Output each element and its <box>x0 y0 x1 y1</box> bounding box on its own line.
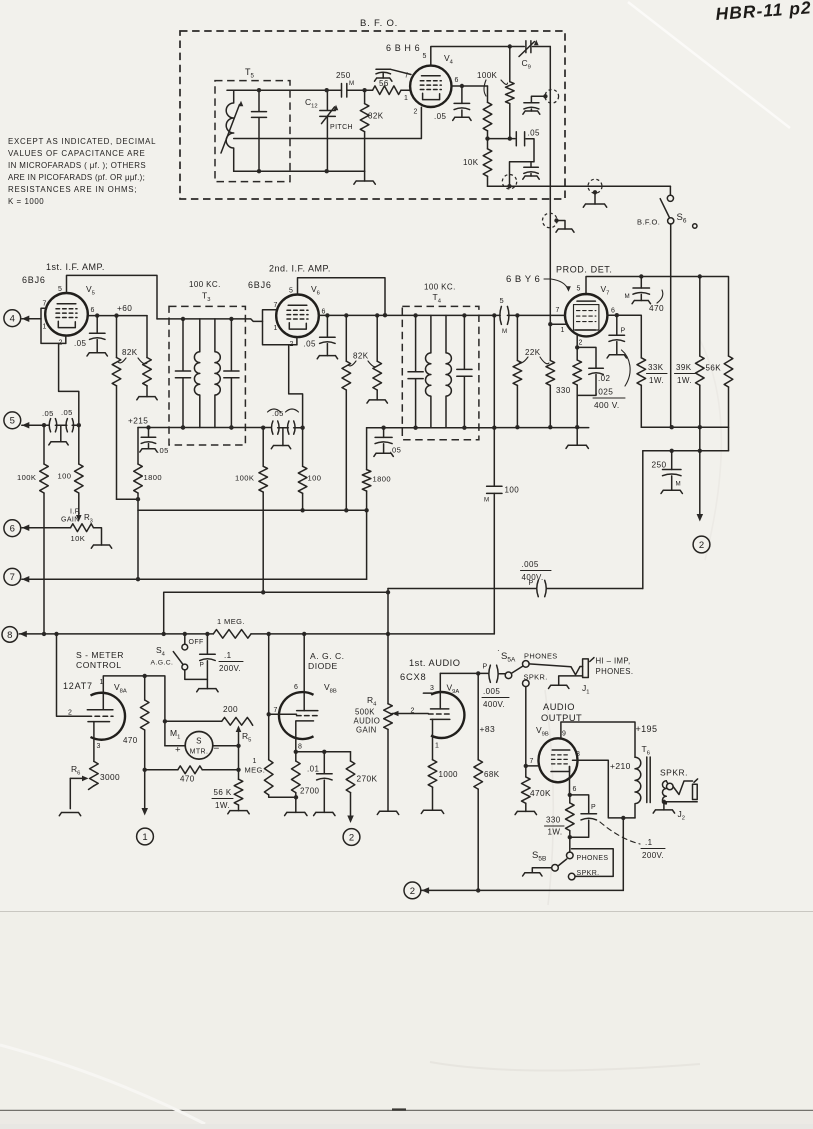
svg-text:HI – IMP,: HI – IMP, <box>596 657 631 666</box>
svg-text:MEG.: MEG. <box>245 766 266 775</box>
svg-text:SPKR.: SPKR. <box>577 870 600 877</box>
svg-text:10K: 10K <box>71 534 86 543</box>
svg-text:6: 6 <box>573 786 577 793</box>
svg-text:100 KC.: 100 KC. <box>189 280 221 289</box>
wire V7 pin 6 <box>607 315 641 358</box>
svg-text:1: 1 <box>561 327 565 334</box>
svg-text:.05: .05 <box>61 408 73 417</box>
svg-text:6CX8: 6CX8 <box>400 672 426 682</box>
svg-text:12AT7: 12AT7 <box>63 681 93 691</box>
svg-text:5: 5 <box>289 288 293 295</box>
resistor 330 (V7 cathode) <box>576 347 578 360</box>
wire R5 wiper down <box>238 746 240 779</box>
wire 82K-left to 1800 column <box>117 498 139 500</box>
ground at T5 bottom <box>364 171 366 181</box>
svg-text:2: 2 <box>411 708 415 715</box>
resistor 1800 (V6 cathode) <box>366 428 368 470</box>
capacitor .05 (at +215) <box>146 425 150 429</box>
svg-text:100: 100 <box>308 474 322 483</box>
svg-text:P: P <box>591 804 596 811</box>
svg-text:S: S <box>196 737 202 746</box>
terminal 8 <box>2 627 18 643</box>
resistor 22K (left) <box>516 315 518 360</box>
svg-text:.05: .05 <box>390 446 402 455</box>
T6 secondary <box>662 781 666 804</box>
svg-text:1800: 1800 <box>373 475 392 484</box>
svg-text:1000: 1000 <box>439 770 459 779</box>
svg-text:PHONES.: PHONES. <box>596 667 634 676</box>
svg-text:2: 2 <box>699 540 704 551</box>
svg-text:82K: 82K <box>353 352 369 361</box>
wire S5A spkr contact down to V9B grid <box>525 687 527 777</box>
svg-text:8: 8 <box>576 751 580 758</box>
rheostat R6 3000 <box>93 722 95 762</box>
potentiometer R4 500K AUDIO GAIN <box>384 704 393 730</box>
wire V8B pin 7 <box>269 713 297 715</box>
svg-text:7: 7 <box>43 301 47 308</box>
wire terminal 4 to V5 grid <box>22 318 41 320</box>
svg-text:.05: .05 <box>74 339 86 348</box>
grounded cap at shield <box>531 96 545 102</box>
wire terminal 6 to R3 <box>22 527 71 529</box>
wire AGC from 100K-V6 <box>164 592 388 634</box>
shield feedthrough (dashed circle) on C9 line upper <box>545 90 559 104</box>
resistor 82K (right, V5) <box>146 316 148 358</box>
wire V6 grid loop <box>263 310 297 345</box>
svg-text:6: 6 <box>10 524 15 535</box>
capacitor .01 <box>323 752 325 774</box>
resistor 470K <box>522 777 531 803</box>
capacitor .1 200V <box>206 634 208 654</box>
wire detector lower bus (left of gap) <box>494 427 588 429</box>
svg-text:68K: 68K <box>484 770 500 779</box>
resistor 1 MEG (vertical) <box>268 634 270 760</box>
S5B selection box wire <box>572 849 614 877</box>
terminal 2 (audio) <box>404 882 421 899</box>
svg-text:4: 4 <box>10 314 15 325</box>
svg-text:.025: .025 <box>596 387 614 397</box>
wire V9A plate to .005 cap <box>440 672 478 674</box>
svg-text:6: 6 <box>322 309 326 316</box>
wire V5 cathode down <box>59 343 79 425</box>
svg-text:MTR.: MTR. <box>190 749 209 756</box>
svg-text:6: 6 <box>455 77 459 84</box>
svg-text:5: 5 <box>10 416 15 427</box>
switch S4 A.G.C./OFF <box>184 634 186 644</box>
svg-text:330: 330 <box>546 816 561 825</box>
wire audio output feed down <box>642 451 644 589</box>
terminal 6 <box>4 520 21 537</box>
svg-text:M: M <box>349 80 355 87</box>
svg-text:7: 7 <box>274 707 278 714</box>
wire V9B pin 7 <box>526 765 540 767</box>
wire terminal 2 bus (audio B+) <box>422 889 624 891</box>
svg-text:.05: .05 <box>528 129 540 138</box>
svg-text:AUDIO: AUDIO <box>543 702 575 712</box>
svg-text:+215: +215 <box>128 416 148 426</box>
svg-text:1: 1 <box>142 832 147 843</box>
svg-text:A. G. C.: A. G. C. <box>310 651 345 661</box>
resistor 82K (left, V6) <box>345 315 347 361</box>
resistor 22K (right) <box>549 324 551 360</box>
svg-text:6BJ6: 6BJ6 <box>22 275 46 285</box>
svg-text:P: P <box>621 328 626 335</box>
resistor 82K (left, V5) <box>116 316 118 358</box>
svg-text:B.F.O.: B.F.O. <box>637 218 660 227</box>
resistor 270K <box>350 752 352 761</box>
resistor 56K 1W <box>234 779 243 805</box>
capacitor .05 (coupling, BFO out) <box>488 138 516 140</box>
svg-text:1: 1 <box>253 758 257 765</box>
svg-text:.1: .1 <box>224 651 232 660</box>
svg-text:1W.: 1W. <box>215 801 230 810</box>
svg-text:100 KC.: 100 KC. <box>424 283 456 292</box>
wire cathode to ground <box>576 395 578 445</box>
T3 dashed box <box>169 306 245 445</box>
terminal 2 (detector B+) <box>693 536 710 553</box>
wire V8A plate (pin 1) <box>103 676 165 746</box>
capacitor .05 (V5 screen bypass) <box>96 316 98 334</box>
wire S6 to detector bus <box>670 224 672 427</box>
svg-text:500K: 500K <box>355 708 375 717</box>
wire T4 bottom <box>367 427 495 429</box>
label .1/200V with leader <box>600 822 640 844</box>
svg-text:PITCH: PITCH <box>330 124 353 131</box>
svg-text:M: M <box>625 293 631 300</box>
svg-text:6 B H 6: 6 B H 6 <box>386 43 420 53</box>
svg-text:1W.: 1W. <box>677 376 692 385</box>
capacitor 470 M <box>640 277 642 289</box>
svg-text:.05: .05 <box>42 409 54 418</box>
svg-text:470: 470 <box>180 775 195 784</box>
svg-text:1: 1 <box>43 324 47 331</box>
wire V8B pin 6 from AGC bus <box>303 634 305 711</box>
wire V4 pin 6 <box>452 85 488 87</box>
wire V8A grid (pin 2) from AGC bus <box>57 634 88 716</box>
svg-text:7: 7 <box>556 307 560 314</box>
svg-text:.02: .02 <box>598 374 610 383</box>
resistor 100K (BFO) <box>509 47 511 82</box>
T5 dashed box <box>215 81 290 182</box>
svg-text:M: M <box>502 328 508 335</box>
svg-text:.005: .005 <box>483 687 500 696</box>
svg-text:1800: 1800 <box>144 473 163 482</box>
wire V6 pin 2 <box>296 337 298 345</box>
svg-text:1 MEG.: 1 MEG. <box>217 617 245 626</box>
shield tap between caps <box>60 425 62 442</box>
svg-text:2: 2 <box>414 109 418 116</box>
T6 core <box>647 757 650 803</box>
svg-text:6 B Y 6: 6 B Y 6 <box>506 274 540 285</box>
svg-text:10K: 10K <box>463 158 479 167</box>
svg-text:VALUES OF CAPACITANCE ARE: VALUES OF CAPACITANCE ARE <box>8 149 146 158</box>
svg-text:B. F. O.: B. F. O. <box>360 18 398 29</box>
svg-text:470: 470 <box>649 303 664 313</box>
svg-text:470: 470 <box>123 736 138 745</box>
grounded cap on BFO output <box>530 162 532 168</box>
wire BFO injection to V7 pin 1 <box>550 323 567 325</box>
wire V9A cathode pin 1 <box>432 719 434 759</box>
svg-text:6BJ6: 6BJ6 <box>248 280 272 290</box>
wire phones to jack J1 <box>529 664 583 675</box>
T4 primary tuning cap <box>408 315 423 427</box>
svg-text:56K: 56K <box>706 364 722 373</box>
switch S6 <box>669 186 671 195</box>
svg-text:82K: 82K <box>122 348 138 357</box>
svg-text:I.F.: I.F. <box>70 509 81 516</box>
svg-text:200: 200 <box>223 704 238 714</box>
svg-text:S - METER: S - METER <box>76 650 124 660</box>
speaker cord and plug J2 <box>673 781 692 795</box>
svg-text:6: 6 <box>294 684 298 691</box>
svg-text:2: 2 <box>410 886 415 897</box>
T4 primary winding <box>426 315 431 427</box>
svg-text:P: P <box>529 580 534 587</box>
svg-text:7: 7 <box>274 302 278 309</box>
wire screen bus (+) <box>138 509 367 511</box>
potentiometer R5 200 <box>165 720 222 722</box>
wire V6 cathode down <box>289 345 303 428</box>
svg-text:·: · <box>497 646 500 655</box>
svg-text:+83: +83 <box>480 724 496 734</box>
svg-text:200V.: 200V. <box>642 851 664 860</box>
wire meter - to R5 wiper <box>213 745 239 747</box>
resistor 100 (V6 cathode) <box>302 428 304 467</box>
resistor 56K <box>724 356 733 387</box>
svg-text:A.G.C.: A.G.C. <box>151 660 174 667</box>
svg-text:+195: +195 <box>636 724 658 734</box>
svg-text:9: 9 <box>562 731 566 738</box>
wire .005 coupling run <box>388 588 643 590</box>
svg-text:100K: 100K <box>235 474 254 483</box>
svg-text:1: 1 <box>404 95 408 102</box>
svg-text:3: 3 <box>430 685 434 692</box>
terminal 1 <box>137 828 154 845</box>
grounded cap at V4 pin 7 <box>391 69 412 74</box>
resistor 100K (V5 AGC) <box>43 425 45 464</box>
svg-text:5: 5 <box>423 53 427 60</box>
wire terminal 5 <box>22 424 49 426</box>
svg-text:P: P <box>483 664 488 671</box>
capacitor in T5 <box>252 90 267 171</box>
svg-text:100K: 100K <box>477 71 498 80</box>
wire +210 column down to terminal 2 <box>622 818 624 891</box>
shield feedthrough (dashed circle) on C9 line lower <box>543 213 558 228</box>
wire vertical at 388 <box>387 589 389 704</box>
wire B+ arrow to terminal 2 <box>699 427 701 516</box>
wire C9 down to product detector <box>549 47 551 325</box>
resistor 330 1W <box>569 795 571 803</box>
shield tap between V6 coupling caps <box>282 428 284 446</box>
svg-text:GAIN: GAIN <box>61 517 80 524</box>
wire V7 pin 7 <box>507 314 565 316</box>
svg-text:400V.: 400V. <box>483 700 505 709</box>
svg-text:GAIN: GAIN <box>356 726 377 735</box>
svg-text:39K: 39K <box>676 363 692 372</box>
svg-text:2nd. I.F. AMP.: 2nd. I.F. AMP. <box>269 264 331 274</box>
capacitor P (.025 400V) <box>616 315 618 335</box>
svg-text:2: 2 <box>579 340 583 347</box>
svg-text:3: 3 <box>97 743 101 750</box>
terminal 7 <box>4 568 21 585</box>
svg-text:AUDIO: AUDIO <box>354 717 381 726</box>
svg-text:5: 5 <box>500 296 505 305</box>
svg-text:3000: 3000 <box>100 772 120 782</box>
wire V6 pin 6 / T4 top <box>319 314 500 316</box>
svg-text:6: 6 <box>611 308 615 315</box>
wire T5 top <box>227 89 342 91</box>
svg-text:1: 1 <box>435 743 439 750</box>
svg-text:100K: 100K <box>17 473 36 482</box>
svg-text:.005: .005 <box>522 560 539 569</box>
capacitor C9 (variable) <box>510 46 551 48</box>
potentiometer R3 10K IF GAIN <box>78 493 80 518</box>
svg-text:270K: 270K <box>357 774 378 784</box>
capacitor .05 (V6 screen bypass) <box>326 315 328 337</box>
svg-text:100: 100 <box>58 472 72 481</box>
svg-text:.05: .05 <box>434 112 446 121</box>
wire BFO output <box>488 185 671 187</box>
svg-text:.01: .01 <box>307 765 319 774</box>
wire T3 top <box>157 319 263 322</box>
resistor 68K (+83) <box>477 673 479 759</box>
svg-text:330: 330 <box>556 386 571 395</box>
T3 primary tuning cap <box>175 319 190 428</box>
svg-text:8: 8 <box>298 744 302 751</box>
svg-text:7: 7 <box>10 572 15 583</box>
capacitor C12 PITCH (variable) <box>320 90 336 171</box>
wire detector bus 2 <box>643 450 729 452</box>
svg-text:1st. AUDIO: 1st. AUDIO <box>409 658 461 668</box>
jack J1 <box>583 659 589 678</box>
wire V4 pin 5 to top <box>431 47 510 66</box>
terminal 4 <box>4 310 21 327</box>
svg-text:8: 8 <box>7 630 12 641</box>
capacitor P .005 400V <box>478 672 488 674</box>
T3 primary winding <box>194 319 199 428</box>
wire meter + <box>165 745 185 747</box>
resistor 82K (right, V6) <box>376 315 378 361</box>
svg-text:EXCEPT AS INDICATED, DECIMAL: EXCEPT AS INDICATED, DECIMAL <box>8 137 156 146</box>
svg-text:200V.: 200V. <box>219 664 241 673</box>
svg-text:K = 1000: K = 1000 <box>8 197 44 206</box>
wire V5 pin 5 to T3 primary <box>67 275 158 319</box>
svg-text:7: 7 <box>530 758 534 765</box>
svg-text:22K: 22K <box>525 348 541 357</box>
svg-text:CONTROL: CONTROL <box>76 660 122 670</box>
capacitor .05 (V4 bypass) <box>461 86 463 103</box>
svg-text:250: 250 <box>336 71 351 80</box>
resistor 470 (plate) <box>144 676 146 700</box>
wire V7 pin 2 cathode <box>576 336 578 348</box>
svg-text:33K: 33K <box>648 363 664 372</box>
wire V9B pin 6 cathode <box>569 767 571 795</box>
B.F.O. shield dashed box <box>180 31 565 199</box>
svg-text:RESISTANCES ARE IN OHMS;: RESISTANCES ARE IN OHMS; <box>8 185 137 194</box>
resistor 39K 1W <box>699 277 701 357</box>
resistor 2700 <box>295 752 297 761</box>
wire V9B pin 9 / +195 <box>561 722 635 757</box>
capacitor 250 M <box>671 451 673 470</box>
shield feedthrough (dashed circle) with ground <box>588 179 602 193</box>
capacitor 100 M (mixer inject) <box>493 315 495 634</box>
svg-text:5: 5 <box>58 286 62 293</box>
svg-text:OFF: OFF <box>189 639 204 646</box>
svg-text:1: 1 <box>274 325 278 332</box>
T3 secondary winding <box>215 319 220 428</box>
svg-text:400 V.: 400 V. <box>594 400 620 410</box>
svg-text:.1: .1 <box>645 838 653 847</box>
svg-text:.05: .05 <box>304 340 316 349</box>
svg-text:100: 100 <box>505 486 520 495</box>
svg-text:PHONES: PHONES <box>524 652 558 661</box>
resistor 470 (cathode bal) <box>145 769 178 771</box>
svg-text:6: 6 <box>91 307 95 314</box>
T4 dashed box <box>402 306 479 439</box>
wire terminal 7 bus <box>22 578 367 580</box>
svg-text:P: P <box>200 662 205 669</box>
resistor 100 (V5 cathode) <box>78 425 80 464</box>
svg-text:250: 250 <box>652 460 667 470</box>
resistor 33K 1W <box>637 358 646 385</box>
terminal 5 <box>4 412 21 429</box>
svg-text:+60: +60 <box>117 303 132 313</box>
wire V5 grid loop pins 7-1 <box>41 308 66 343</box>
wire detector bus 1 <box>641 426 728 428</box>
resistor 10K <box>487 139 489 149</box>
svg-text:.05: .05 <box>157 446 169 455</box>
svg-text:M: M <box>676 481 682 488</box>
svg-text:56 K: 56 K <box>214 788 232 797</box>
inductor L of T5 (tapped, variable) <box>226 90 233 171</box>
svg-text:1W.: 1W. <box>649 376 664 385</box>
resistor 82K (BFO grid leak) <box>362 88 366 92</box>
terminal 2 (audio out to ps) <box>343 829 360 846</box>
svg-text:1W.: 1W. <box>548 828 563 837</box>
svg-text:DIODE: DIODE <box>308 661 338 671</box>
wire R4 wiper to V9A grid <box>392 711 399 717</box>
svg-text:+210: +210 <box>610 761 631 771</box>
wire T5 bottom <box>234 170 365 172</box>
svg-text:2700: 2700 <box>300 787 320 796</box>
wire coil tap to V4 pin 2 <box>234 107 422 138</box>
resistor chain at V4 screen <box>487 86 489 102</box>
wire V6 pin 5 loop <box>298 278 386 315</box>
wire V8B pin 8 <box>294 750 298 754</box>
wire terminal 8 AGC bus with 1 MEG <box>19 633 213 635</box>
wire V5 pin 2 <box>65 336 67 344</box>
capacitor .02 <box>577 347 596 368</box>
svg-text:IN MICROFARADS ( μf. ); OTHERS: IN MICROFARADS ( μf. ); OTHERS <box>8 161 146 170</box>
svg-text:PROD. DET.: PROD. DET. <box>556 265 613 275</box>
speaker output contact <box>666 781 667 784</box>
svg-text:1st. I.F. AMP.: 1st. I.F. AMP. <box>46 262 105 272</box>
T4 secondary winding <box>446 315 451 427</box>
S5B arm and common <box>558 859 567 866</box>
wire secondary bottom <box>664 801 666 803</box>
capacitor .05 (V6 cathode bypass) <box>383 428 385 438</box>
resistor 1000 <box>428 760 437 787</box>
shield feedthrough (dashed circle) on output <box>502 175 516 189</box>
resistor 100K (V6 AGC) <box>262 428 264 467</box>
T3 secondary tuning cap <box>224 319 239 428</box>
T4 secondary tuning cap <box>457 315 472 427</box>
wire V9B pin 8 / +210 <box>573 760 636 818</box>
wire prod det top rail <box>586 277 729 357</box>
svg-text:470K: 470K <box>530 788 551 798</box>
svg-text:SPKR.: SPKR. <box>660 768 688 778</box>
wire V5 pin 6 (+60) <box>88 315 147 317</box>
